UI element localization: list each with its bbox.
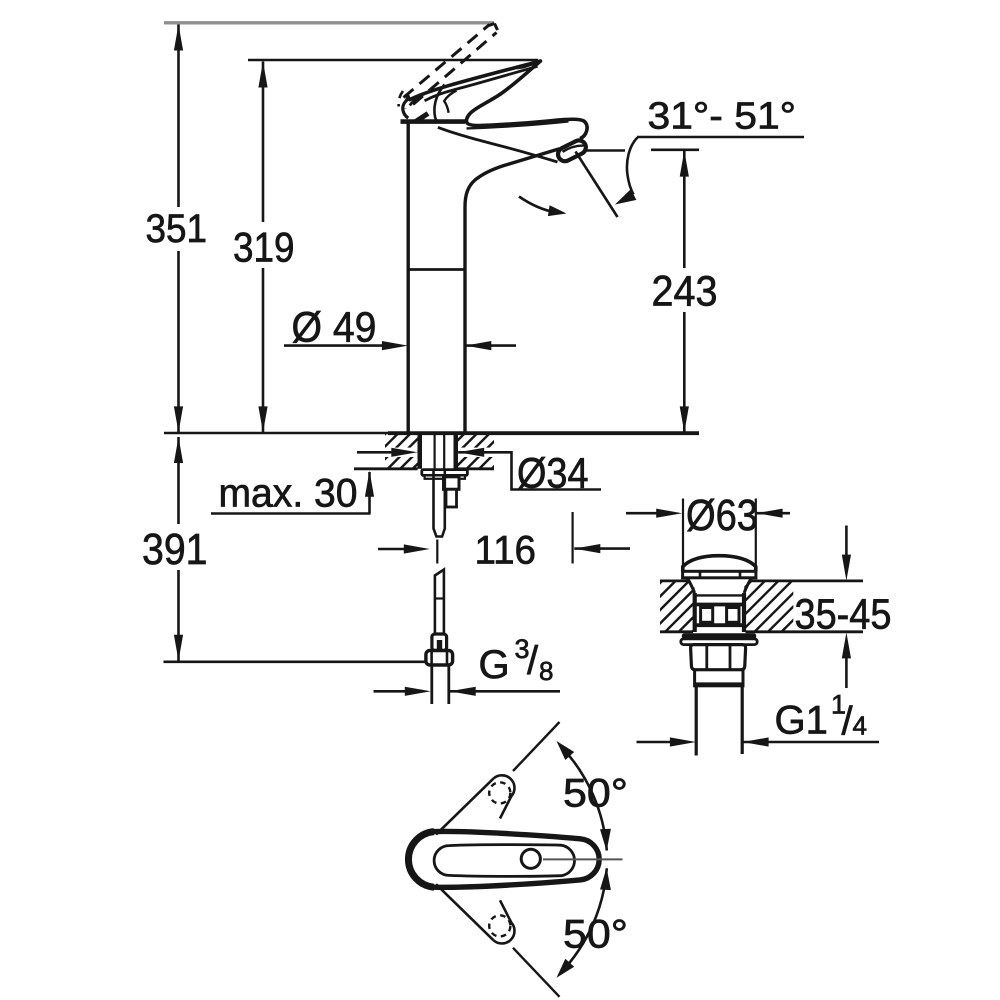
svg-text:35-45: 35-45 (795, 591, 892, 639)
drain body walls (693, 593, 697, 632)
lever blade top edge (410, 61, 541, 100)
dimension O49 (284, 344, 384, 347)
dimension O63 (626, 512, 657, 515)
svg-text:Ø 49: Ø 49 (292, 304, 377, 352)
50deg lower arc (561, 868, 607, 973)
dimension 319 vertical (262, 62, 265, 433)
cartridge dome arc left (410, 91, 433, 106)
dimension G1 1/4 (637, 741, 672, 744)
sink bottom line (660, 630, 693, 633)
deck top line (164, 432, 388, 435)
compression ferrule (432, 634, 447, 651)
deck hatching left (348, 432, 449, 471)
lever top view outer outline (408, 831, 599, 887)
supply pipe lower (435, 570, 444, 635)
svg-text:50°: 50° (563, 913, 628, 957)
ghost lever upper edge (436, 779, 493, 835)
sink hatching left (609, 579, 745, 634)
svg-text:G1: G1 (775, 699, 828, 743)
lever tip thick wedge (516, 60, 541, 69)
white gap 243 (676, 268, 693, 312)
white gap 391 (170, 524, 187, 570)
50deg upper arc (561, 746, 607, 851)
reference line bottom 391 (164, 660, 427, 663)
diagonal leader from aerator (576, 152, 618, 218)
drain interior lines (695, 594, 744, 596)
deck hatching right (427, 432, 528, 471)
supply tail pipe (430, 665, 433, 704)
dome cap arc (444, 91, 456, 113)
ghost lower dashed hole (489, 915, 510, 936)
ghost lever upper tip arc (493, 775, 514, 796)
shank left wall (418, 435, 423, 469)
svg-text:319: 319 (233, 224, 295, 271)
svg-text:8: 8 (539, 656, 553, 686)
white halo around O34 dimension in hatch (384, 448, 417, 457)
backnut (691, 645, 746, 670)
raised lever back dashed arc 2 (405, 95, 409, 109)
svg-text:391: 391 (142, 525, 208, 574)
raised lever tip dash b (495, 24, 498, 31)
ghost lower extension line (513, 948, 560, 997)
sink top line (660, 580, 688, 583)
dimension 116 (378, 548, 404, 551)
O63 extension lines (682, 499, 684, 567)
overflow window right (727, 608, 739, 623)
body joint line (409, 268, 465, 271)
svg-text:116: 116 (475, 529, 537, 573)
raised lever dashed line 1 (404, 25, 490, 98)
243 top tick line (651, 149, 699, 152)
seal flange (681, 639, 757, 645)
svg-text:/: / (527, 639, 539, 683)
centerline (543, 858, 623, 860)
dimension max30 (211, 512, 371, 515)
pull rod adapter lower (446, 489, 457, 507)
svg-text:243: 243 (652, 268, 718, 316)
31-51 angle arc (627, 138, 638, 195)
svg-text:351: 351 (146, 207, 208, 251)
aerator (556, 138, 589, 164)
lever back end outline (403, 98, 411, 119)
faucet body left edge (407, 123, 410, 432)
reference line 319 (248, 59, 538, 62)
svg-text:max. 30: max. 30 (219, 472, 358, 516)
spout lower-right face line (438, 127, 558, 162)
lever top view inner outline (434, 845, 574, 877)
svg-text:4: 4 (853, 711, 867, 741)
dimension 243 vertical (683, 151, 686, 433)
31-51 underline (637, 136, 804, 139)
cartridge front edge (434, 85, 444, 122)
shoulder (695, 670, 743, 686)
svg-text:50°: 50° (563, 772, 628, 816)
lever top view left end bold arc (408, 832, 434, 888)
supply pipe upper (434, 469, 445, 537)
svg-text:Ø63: Ø63 (686, 491, 758, 540)
aerator level line (586, 149, 625, 152)
svg-text:Ø34: Ø34 (517, 450, 589, 498)
ghost upper extension line (513, 722, 560, 771)
dimension G3/8 (374, 690, 407, 693)
lever blade lower edge (425, 66, 538, 101)
dimension 391 vertical (177, 437, 180, 661)
drain tail pipe (695, 686, 698, 756)
dimension O34 leader (357, 451, 400, 454)
shank right wall (454, 435, 459, 469)
pull rod adapter block (444, 477, 460, 490)
shank inner pipes (434, 434, 436, 469)
ghost lever lower tip arc (493, 922, 514, 943)
dimension 35-45 (845, 526, 848, 556)
lever screw hole (521, 849, 540, 868)
116 extension line (571, 512, 573, 564)
white gap 351 (170, 207, 187, 251)
body top band (401, 119, 466, 124)
spout inner parallel line (467, 121, 569, 128)
rubber seal (682, 633, 756, 639)
dimension 351 vertical (177, 25, 180, 433)
drain neck left (688, 578, 695, 593)
cap rim (683, 571, 756, 578)
svg-text:G: G (479, 643, 510, 687)
faucet body right edge and spout underside curve (465, 149, 560, 432)
raised lever back dashed arc 1 (399, 91, 403, 107)
mounting washer (422, 470, 468, 476)
sink hatching right (699, 579, 848, 634)
white gap 319 (254, 222, 272, 268)
flow curved arrow (519, 197, 556, 213)
drain neck right (744, 578, 751, 593)
shadow wedge at lever back (416, 114, 429, 122)
aerator inner line (563, 146, 584, 152)
ghost upper dashed hole (489, 782, 510, 803)
svg-text:31°- 51°: 31°- 51° (648, 96, 797, 138)
raised lever tip dash a (488, 24, 495, 27)
raised lever dashed line 2 (413, 33, 497, 105)
deck bottom line (354, 467, 418, 470)
lever underside S-curve and spout top edge (466, 61, 587, 138)
overflow window left (701, 608, 713, 623)
ghost lever lower edge (436, 884, 493, 940)
pipe axis tick (436, 540, 438, 564)
top reference line 351 (gray) (164, 21, 494, 24)
pop-up cap dome (683, 556, 756, 572)
compression nut G3/8 (426, 651, 453, 666)
